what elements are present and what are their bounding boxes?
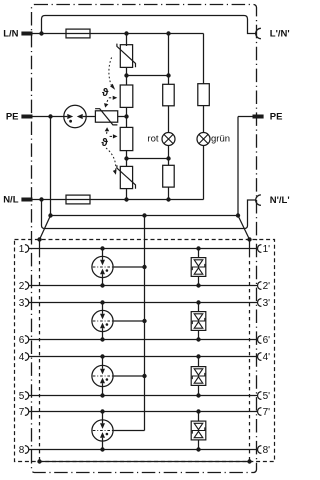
svg-text:N/L: N/L xyxy=(3,195,19,206)
thermal disconnect resistor RT2 xyxy=(120,127,133,150)
node G4 bottom xyxy=(100,447,104,451)
theta1 dashed arrow to RT1 (curve) xyxy=(109,58,112,86)
terminal 6' xyxy=(257,336,261,344)
node PE drop junction xyxy=(48,114,52,118)
wire earth link left (indirect) xyxy=(39,240,41,255)
terminal 3' xyxy=(258,299,262,307)
svg-text:1': 1' xyxy=(263,244,271,255)
resistor R3 xyxy=(198,84,210,106)
protection module border (dashed) xyxy=(15,240,275,462)
terminal 2 xyxy=(25,282,29,290)
node D1 bottom xyxy=(196,283,200,287)
svg-text:ϑ: ϑ xyxy=(102,87,109,99)
wire line 1-1' xyxy=(29,248,258,250)
suppressor diode D4 xyxy=(191,421,206,440)
wire branch3 xyxy=(203,34,205,84)
wire GDT to RV2 xyxy=(86,116,95,118)
terminal 6 xyxy=(25,336,29,344)
svg-text:rot: rot xyxy=(147,134,158,145)
wire line 2-2' xyxy=(29,285,258,287)
terminal N/L xyxy=(21,198,32,202)
wire G2 centre electrode xyxy=(114,320,145,322)
wire PE right xyxy=(238,116,253,118)
svg-text:6': 6' xyxy=(263,335,271,346)
node PE bus GDT tap xyxy=(142,213,146,217)
terminal 5' xyxy=(258,392,262,400)
wire branch2 to lamp xyxy=(168,106,170,133)
terminal L/N xyxy=(21,32,32,36)
svg-text:8: 8 xyxy=(19,445,25,456)
theta1 dashed arrow down to RV2 xyxy=(106,100,108,104)
three-electrode gas discharge tube G3 xyxy=(92,365,113,386)
node branch2 bottom xyxy=(166,197,170,201)
theta2 dashed arrow to RV3 (curve) xyxy=(106,148,116,170)
terminal 5 xyxy=(25,392,29,400)
svg-text:2': 2' xyxy=(263,281,271,292)
wire PE diagonal right xyxy=(238,216,250,240)
wire line 8-8' xyxy=(29,449,258,451)
node G4 top xyxy=(100,409,104,413)
suppressor diode D3 xyxy=(191,367,206,386)
node branch1 bottom xyxy=(124,197,128,201)
svg-text:7': 7' xyxy=(263,407,271,418)
wire G1 centre electrode xyxy=(114,266,145,268)
svg-text:2: 2 xyxy=(19,281,25,292)
wire PE drop left xyxy=(50,117,52,216)
node D3 bottom xyxy=(196,393,200,397)
wire N feed-through xyxy=(42,200,256,229)
terminal 1' xyxy=(258,245,262,253)
theta2 dashed arrow up to RV2 xyxy=(106,131,108,133)
svg-text:PE: PE xyxy=(270,112,283,123)
svg-text:4: 4 xyxy=(19,352,25,363)
node G2 bottom xyxy=(100,337,104,341)
node branch1 PE junction xyxy=(124,114,128,118)
suppressor diode D2 xyxy=(191,312,206,331)
wire RV2 to branch1 xyxy=(118,116,127,118)
node G3 bottom xyxy=(100,393,104,397)
svg-text:3': 3' xyxy=(263,298,271,309)
node D2 top xyxy=(196,300,200,304)
wire L/N line xyxy=(33,33,204,35)
node G1 top xyxy=(100,246,104,250)
node D1 top xyxy=(196,246,200,250)
svg-text:L'/N': L'/N' xyxy=(270,29,290,40)
terminal PE left xyxy=(21,115,32,119)
wire G3 centre electrode xyxy=(114,375,145,377)
terminal L&apos;/N&apos; xyxy=(256,28,261,38)
indicator lamp rot xyxy=(162,133,175,146)
wire earth link right (indirect) xyxy=(249,240,251,255)
wire PE drop right xyxy=(237,117,239,216)
node D4 bottom xyxy=(196,447,200,451)
wire cross-link branch1-branch2 xyxy=(127,158,169,160)
terminal 8' xyxy=(258,446,262,454)
wire PE left xyxy=(33,116,65,118)
terminal 8 xyxy=(25,446,29,454)
terminal 2' xyxy=(257,282,261,290)
terminal 3 xyxy=(25,299,29,307)
node ground bus right xyxy=(247,459,251,463)
node G1 bottom xyxy=(100,283,104,287)
wire branch1 bottom xyxy=(126,189,128,200)
wire branch2 bottom xyxy=(168,187,170,199)
node earth link left xyxy=(37,237,41,241)
resistor R2 xyxy=(163,165,175,187)
wire branch1 to joint xyxy=(126,67,128,85)
wire branch2 upper xyxy=(168,34,170,85)
fuse F1 xyxy=(66,29,90,38)
wire line 5-5' xyxy=(29,395,258,397)
terminal N&apos;/L&apos; xyxy=(256,195,261,205)
terminal 4 xyxy=(25,353,29,361)
wire branch3 mid xyxy=(203,106,205,133)
node branch1 cross-link xyxy=(124,156,128,160)
gas discharge tube F2 (spark gap) xyxy=(64,105,86,127)
wire line 6-6' xyxy=(29,339,258,341)
svg-text:4': 4' xyxy=(263,352,271,363)
theta2 dashed arrow right xyxy=(110,135,114,137)
wire PE bus xyxy=(51,215,239,217)
svg-text:1: 1 xyxy=(19,244,25,255)
thermal disconnect resistor RT1 xyxy=(120,85,133,107)
node N/L junction xyxy=(39,197,43,201)
svg-text:PE: PE xyxy=(6,112,19,123)
node G1 bus tap xyxy=(142,265,146,269)
svg-text:5: 5 xyxy=(19,391,25,402)
node D2 bottom xyxy=(196,337,200,341)
svg-text:7: 7 xyxy=(19,407,25,418)
node branch2 top xyxy=(166,31,170,35)
fuse F3 xyxy=(66,195,90,204)
svg-text:grün: grün xyxy=(211,134,230,145)
wire GDT collector bus xyxy=(144,216,146,431)
terminal 7' xyxy=(258,408,262,416)
wire branch1 mid xyxy=(126,107,128,127)
wire line 4-4' xyxy=(29,356,258,358)
wire inner top link L/N to L&apos;/N&apos; xyxy=(42,16,256,34)
wire branch2 lower xyxy=(168,146,170,166)
node PE bus left xyxy=(48,213,52,217)
svg-text:5': 5' xyxy=(263,391,271,402)
node earth link right xyxy=(247,237,251,241)
wire branch1 upper xyxy=(126,34,128,47)
wire branch1 lower xyxy=(126,151,128,167)
node D3 top xyxy=(196,354,200,358)
node joint left xyxy=(124,73,128,77)
varistor RV1 xyxy=(120,45,132,68)
svg-text:3: 3 xyxy=(19,298,25,309)
wire G4 centre electrode xyxy=(114,430,145,432)
three-electrode gas discharge tube G2 xyxy=(92,310,113,331)
node G3 top xyxy=(100,354,104,358)
wire N/L line xyxy=(33,199,204,201)
terminal 1 xyxy=(25,245,29,253)
indicator lamp gruen xyxy=(197,133,210,146)
wire ground bus bottom xyxy=(40,461,250,463)
wire line 3-3' xyxy=(29,302,258,304)
svg-text:6: 6 xyxy=(19,335,25,346)
suppressor diode D1 xyxy=(191,258,206,277)
node L/N junction xyxy=(39,31,43,35)
resistor R1 xyxy=(163,84,175,106)
wire branch3 bottom xyxy=(203,146,205,200)
theta1 dashed arrow right xyxy=(109,97,113,99)
node branch1 top xyxy=(124,31,128,35)
three-electrode gas discharge tube G1 xyxy=(92,256,113,277)
node PE bus right xyxy=(236,213,240,217)
enclosure border (dash-dot) xyxy=(32,5,257,473)
varistor RV2 xyxy=(95,111,117,122)
svg-text:8': 8' xyxy=(263,445,271,456)
node joint right xyxy=(166,73,170,77)
node G2 bus tap xyxy=(142,319,146,323)
node G2 top xyxy=(100,300,104,304)
terminal PE right xyxy=(253,115,264,119)
varistor RV3 xyxy=(120,166,132,188)
svg-text:N'/L': N'/L' xyxy=(270,195,290,206)
wire line 7-7' xyxy=(29,411,258,413)
node branch2 cross-link xyxy=(166,156,170,160)
wire joint link branch1-branch2 xyxy=(127,75,169,77)
terminal 4' xyxy=(258,353,262,361)
three-electrode gas discharge tube G4 xyxy=(92,420,113,441)
terminal 7 xyxy=(25,408,29,416)
node ground bus left xyxy=(37,459,41,463)
node G3 bus tap xyxy=(142,374,146,378)
svg-text:ϑ: ϑ xyxy=(101,137,108,149)
svg-text:L/N: L/N xyxy=(3,29,18,40)
wire PE diagonal left xyxy=(40,216,51,240)
node D4 top xyxy=(196,409,200,413)
